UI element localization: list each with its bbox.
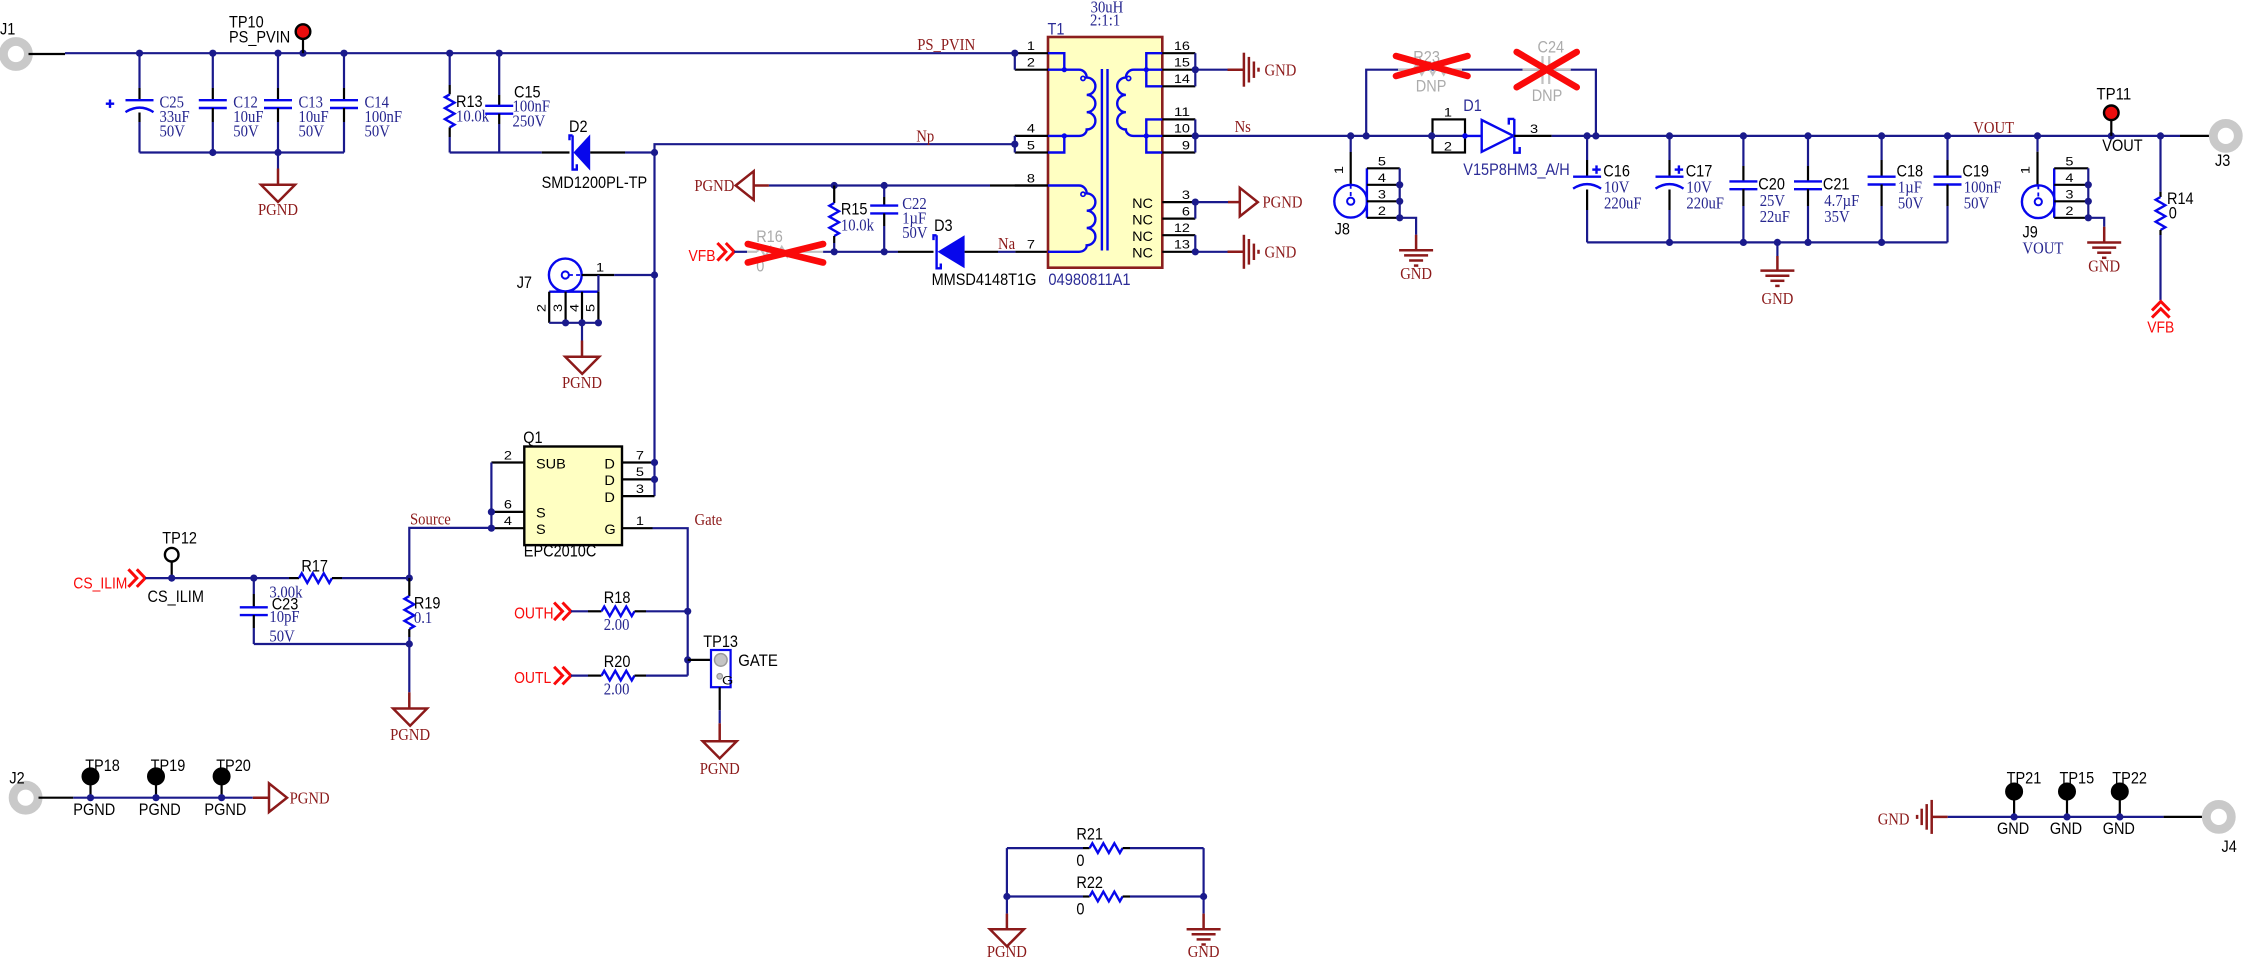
T1 primary-bottom internal connection (pins 4,5) xyxy=(1048,136,1064,153)
resistor R20 xyxy=(571,674,588,676)
svg-text:R21: R21 xyxy=(1076,825,1103,844)
svg-text:3: 3 xyxy=(553,304,565,312)
wire: J7 pin 1 to trunk xyxy=(582,274,615,276)
X mark over R23 (DNP) xyxy=(1396,56,1468,76)
capacitor C24 (DNP, crossed out) xyxy=(1523,69,1543,71)
svg-text:7: 7 xyxy=(636,450,644,462)
T1 pin 14 xyxy=(1162,85,1195,87)
svg-text:5: 5 xyxy=(586,304,598,312)
wire: Gate net from Q1 to gate trunk xyxy=(653,528,688,675)
testpoint TP10 xyxy=(296,24,311,39)
svg-text:10: 10 xyxy=(1174,124,1190,136)
diode D3 MMSD4148T1G xyxy=(898,251,934,253)
T1 pin 8 xyxy=(1015,184,1048,186)
svg-text:0: 0 xyxy=(2169,203,2177,222)
Q1 pin 7 (D) xyxy=(622,461,655,463)
svg-text:S: S xyxy=(536,521,546,537)
svg-text:1: 1 xyxy=(636,516,644,528)
svg-text:GND: GND xyxy=(1188,942,1220,960)
svg-text:G: G xyxy=(722,676,733,688)
resistor R16 (DNP, crossed out) xyxy=(747,251,757,253)
svg-text:VFB: VFB xyxy=(2147,320,2174,337)
testpoint TP19 xyxy=(148,769,164,785)
svg-text:GND: GND xyxy=(1878,810,1910,829)
svg-text:NC: NC xyxy=(1132,245,1153,261)
wire: C23 bottom rail to R19 xyxy=(254,643,409,645)
svg-text:GND: GND xyxy=(2103,819,2135,838)
svg-text:35V: 35V xyxy=(1824,207,1850,226)
svg-text:3: 3 xyxy=(2065,190,2073,202)
node: branch junctions xyxy=(1003,893,1010,900)
svg-text:GND: GND xyxy=(1997,819,2029,838)
svg-text:J2: J2 xyxy=(9,769,24,788)
svg-text:50V: 50V xyxy=(1964,194,1990,213)
capacitor C17 xyxy=(1668,136,1670,160)
node: J7 pin1 junction on trunk xyxy=(651,271,658,278)
svg-text:2: 2 xyxy=(1027,58,1035,70)
svg-text:VOUT: VOUT xyxy=(2102,136,2142,155)
svg-text:2: 2 xyxy=(1444,142,1452,154)
testpoint TP15 xyxy=(2059,784,2075,800)
capacitor C20 xyxy=(1742,136,1744,166)
svg-text:R17: R17 xyxy=(301,556,328,575)
ground GND below output caps xyxy=(1776,242,1778,256)
svg-text:J1: J1 xyxy=(0,20,15,39)
diode D1 pin box (pins 1,2) xyxy=(1433,119,1466,152)
svg-text:1: 1 xyxy=(596,263,604,275)
node: output rail junctions xyxy=(1584,132,1591,139)
svg-text:50V: 50V xyxy=(160,122,186,141)
port PGND at T1 pin 3 xyxy=(1195,201,1228,203)
connector J9 (SMA) pin 1 drop xyxy=(2036,136,2038,152)
testpoint TP13 (GATE) xyxy=(688,659,711,661)
connector J1 xyxy=(3,42,28,67)
capacitor C23 xyxy=(253,578,255,594)
svg-text:4: 4 xyxy=(2065,173,2074,185)
node: junctions on pin 8 rail xyxy=(831,182,838,189)
svg-text:D: D xyxy=(604,455,615,471)
svg-text:Np: Np xyxy=(916,127,934,146)
testpoint TP22 xyxy=(2112,784,2128,800)
svg-text:0.1: 0.1 xyxy=(414,608,432,627)
ground GND below J9 xyxy=(2088,218,2104,227)
ground PGND below TP13 xyxy=(719,687,721,710)
Q1 pin 6 (S) xyxy=(491,511,524,513)
T1 secondary internal staple (pins 16,15,14) xyxy=(1146,53,1162,86)
ground GND at T1 pin 15 xyxy=(1195,69,1227,71)
node: C23 junction xyxy=(250,575,257,582)
svg-text:220uF: 220uF xyxy=(1604,194,1642,213)
wire: staple joining T1 pins 11/10/9 xyxy=(1194,119,1196,152)
svg-text:J3: J3 xyxy=(2215,151,2230,170)
connector J9 pin box (pins 5-2) xyxy=(2053,168,2055,218)
svg-text:PGND: PGND xyxy=(562,373,602,392)
svg-text:220uF: 220uF xyxy=(1686,194,1724,213)
svg-text:6: 6 xyxy=(504,500,512,512)
svg-text:8: 8 xyxy=(1027,173,1035,185)
T1 pin 16 xyxy=(1162,52,1195,54)
wire: through D1 pin box xyxy=(1432,135,1465,137)
wire: staple joining Q1 pins 2/6/4 xyxy=(490,463,492,529)
testpoint TP12 xyxy=(165,548,179,562)
transformer T1 body xyxy=(1048,37,1162,268)
svg-text:Ns: Ns xyxy=(1235,117,1251,136)
svg-text:TP15: TP15 xyxy=(2060,769,2095,788)
svg-text:TP22: TP22 xyxy=(2112,769,2147,788)
resistor R17 xyxy=(299,573,332,583)
T1 pin 4 xyxy=(1015,135,1048,137)
testpoint TP21 xyxy=(2006,784,2022,800)
svg-text:PGND: PGND xyxy=(258,200,298,219)
capacitor C16 xyxy=(1586,136,1588,160)
wire: R13/C15 bottom rail to D2 xyxy=(450,151,542,153)
svg-text:R16: R16 xyxy=(756,227,783,246)
Q1 pin 5 (D) xyxy=(622,478,655,480)
capacitor C13 xyxy=(277,53,279,88)
svg-text:TP19: TP19 xyxy=(151,756,186,775)
svg-text:PS_PVIN: PS_PVIN xyxy=(229,27,290,46)
svg-text:NC: NC xyxy=(1132,195,1153,211)
svg-text:PGND: PGND xyxy=(139,800,181,819)
svg-text:TP12: TP12 xyxy=(162,528,197,547)
T1 secondary internal staple (pins 11,10,9) xyxy=(1146,119,1162,152)
svg-text:5: 5 xyxy=(636,467,644,479)
wire: staple joining T1 pins 4-5, Np connection xyxy=(1014,136,1016,153)
svg-text:TP20: TP20 xyxy=(216,756,251,775)
wire: R21/R22 right branch xyxy=(1202,848,1204,896)
wire: staple joining T1 pins 12/13 xyxy=(1194,235,1196,252)
svg-text:PGND: PGND xyxy=(390,725,430,744)
ground GND below J8 xyxy=(1400,218,1416,235)
T1 pin 3 (NC) xyxy=(1162,201,1195,203)
diode D2 SMD1200PL-TP xyxy=(542,151,570,153)
svg-text:NC: NC xyxy=(1132,211,1153,227)
svg-text:OUTL: OUTL xyxy=(514,670,551,687)
ground GND below right branch xyxy=(1202,897,1204,914)
svg-text:14: 14 xyxy=(1174,74,1191,86)
connector J7 (SMA) xyxy=(549,259,582,292)
svg-text:R22: R22 xyxy=(1076,873,1103,892)
svg-text:D: D xyxy=(604,489,615,505)
svg-text:1: 1 xyxy=(1444,108,1452,120)
wire: DNP bypass branch R23/C24 xyxy=(1366,70,1596,136)
testpoint TP18 xyxy=(83,769,99,785)
wire: CS_ILIM net to R17 xyxy=(145,577,289,579)
svg-text:VOUT: VOUT xyxy=(2023,238,2064,257)
svg-text:PGND: PGND xyxy=(700,759,740,778)
svg-text:Gate: Gate xyxy=(695,510,723,529)
svg-text:4: 4 xyxy=(1027,124,1036,136)
node: bottom rail junctions xyxy=(209,149,216,156)
svg-text:2: 2 xyxy=(537,304,549,312)
wire: vertical trunk from D2 down to Q1 drain xyxy=(653,153,655,497)
svg-text:J8: J8 xyxy=(1335,219,1350,238)
svg-text:GND: GND xyxy=(1265,60,1297,79)
resistor R14 xyxy=(2159,136,2161,192)
wire: input cap bottom rail xyxy=(140,151,345,153)
Q1 pin 4 (S) xyxy=(491,527,524,529)
T1 pin 13 (NC) xyxy=(1162,251,1195,253)
wire: staple joining T1 pins 1-2 xyxy=(1014,53,1016,69)
resistor R19 xyxy=(408,578,410,596)
svg-text:4: 4 xyxy=(569,303,581,312)
X mark over R16 (DNP) xyxy=(748,244,823,263)
svg-text:5: 5 xyxy=(1027,140,1035,152)
svg-text:10.0k: 10.0k xyxy=(841,216,875,235)
svg-text:2: 2 xyxy=(504,450,512,462)
svg-text:GND: GND xyxy=(1762,289,1794,308)
svg-text:VFB: VFB xyxy=(689,248,716,265)
svg-text:D: D xyxy=(604,472,615,488)
port PGND (right-pointing) xyxy=(253,796,269,799)
svg-text:PGND: PGND xyxy=(204,800,246,819)
svg-text:TP21: TP21 xyxy=(2007,769,2042,788)
wire: net Na, D3 to T1 pin 7 xyxy=(965,251,998,253)
ground PGND below left branch xyxy=(1006,897,1008,914)
T1 pin 9 xyxy=(1162,151,1195,153)
capacitor C25 xyxy=(138,53,140,88)
svg-text:S: S xyxy=(536,505,546,521)
capacitor C21 xyxy=(1807,136,1809,166)
diode D1 V15P8HM3_A/H xyxy=(1462,133,1468,139)
resistor R22 xyxy=(1007,895,1083,897)
svg-text:PGND: PGND xyxy=(290,789,330,808)
Q1 pin 3 (D) xyxy=(622,495,655,497)
svg-text:GND: GND xyxy=(1400,264,1432,283)
svg-text:V15P8HM3_A/H: V15P8HM3_A/H xyxy=(1463,160,1569,179)
T1 pin 10 xyxy=(1162,135,1195,137)
port VFB (output feedback, pointing up) xyxy=(2152,302,2170,318)
svg-text:TP18: TP18 xyxy=(85,756,120,775)
svg-text:Na: Na xyxy=(998,234,1015,253)
svg-text:50V: 50V xyxy=(269,627,295,646)
resistor R23 (DNP, crossed out) xyxy=(1398,69,1414,71)
connector J3 xyxy=(2180,135,2209,137)
svg-text:R18: R18 xyxy=(604,588,631,607)
svg-text:TP13: TP13 xyxy=(703,632,738,651)
svg-text:10.0k: 10.0k xyxy=(456,107,490,126)
wire: top input rail PS_PVIN xyxy=(65,52,1015,54)
svg-text:D3: D3 xyxy=(934,216,953,235)
svg-text:10pF: 10pF xyxy=(269,607,299,626)
T1 pin 1 xyxy=(1015,52,1048,54)
svg-text:DNP: DNP xyxy=(1416,77,1447,96)
wire: R21/R22 left branch xyxy=(1006,848,1008,896)
Q1 pin 1 (G) xyxy=(622,527,653,529)
svg-text:2:1:1: 2:1:1 xyxy=(1090,11,1120,30)
connector J8 (SMA) pin 1 drop xyxy=(1350,136,1352,152)
X mark over C24 (DNP) xyxy=(1517,52,1577,87)
transistor Q1 EPC2010C body xyxy=(524,447,622,546)
wire: output cap bottom rail xyxy=(1587,241,1947,243)
svg-text:1: 1 xyxy=(1334,166,1346,174)
ground PGND below R19 xyxy=(408,644,410,692)
svg-text:GATE: GATE xyxy=(738,651,778,670)
svg-text:R20: R20 xyxy=(604,652,631,671)
wire: pin 8 net rail xyxy=(769,184,990,186)
node: R19 bottom junction xyxy=(406,640,413,647)
svg-text:VOUT: VOUT xyxy=(1973,118,2014,137)
svg-text:50V: 50V xyxy=(1898,194,1924,213)
svg-text:2.00: 2.00 xyxy=(604,615,630,634)
svg-text:GND: GND xyxy=(2050,819,2082,838)
svg-text:PGND: PGND xyxy=(73,800,115,819)
testpoint TP11 xyxy=(2104,106,2119,121)
wire: net Np from T1 pins 4/5 xyxy=(655,144,1015,152)
svg-text:6: 6 xyxy=(1182,206,1190,218)
node: drain junctions on trunk xyxy=(651,459,658,466)
T1 pin 12 (NC) xyxy=(1162,234,1195,236)
svg-text:SMD1200PL-TP: SMD1200PL-TP xyxy=(542,173,648,192)
wire: D1 cathode pin 3 xyxy=(1514,135,1551,137)
svg-text:5: 5 xyxy=(1378,157,1386,169)
svg-text:OUTH: OUTH xyxy=(514,606,553,623)
T1 primary winding internal connection (pins 1,2) xyxy=(1048,53,1064,69)
svg-text:4: 4 xyxy=(1378,173,1387,185)
svg-text:GND: GND xyxy=(1265,243,1297,262)
node: bottom rail junctions xyxy=(1666,239,1673,246)
node: D2 output junction xyxy=(651,149,658,156)
svg-text:PGND: PGND xyxy=(987,942,1027,960)
wire: J2 ground rail xyxy=(39,797,74,799)
svg-text:1: 1 xyxy=(2021,166,2033,174)
node: J7 ground pin junctions xyxy=(562,319,569,326)
connector J7 pin box (pins 2-5) xyxy=(549,291,598,293)
svg-text:Q1: Q1 xyxy=(523,428,542,447)
svg-text:9: 9 xyxy=(1182,140,1190,152)
svg-text:J4: J4 xyxy=(2222,837,2237,856)
svg-text:G: G xyxy=(604,521,615,537)
wire: net Ns rail from T1 pin 10 to output xyxy=(1195,135,1431,137)
svg-text:1: 1 xyxy=(1027,41,1035,53)
svg-text:13: 13 xyxy=(1174,240,1190,252)
T1 core bars xyxy=(1101,69,1103,251)
ground PGND below J7 xyxy=(581,323,583,341)
resistor R15 xyxy=(833,186,835,204)
node: J9 ground pins xyxy=(2085,181,2092,188)
svg-text:Source: Source xyxy=(410,509,451,528)
svg-text:50V: 50V xyxy=(365,122,391,141)
node: junction dots on top rail xyxy=(136,50,143,57)
connector J9 (SMA) xyxy=(2022,185,2055,218)
node: R19 top junction xyxy=(406,575,413,582)
capacitor C14 xyxy=(343,53,345,88)
svg-text:MMSD4148T1G: MMSD4148T1G xyxy=(932,270,1037,289)
wire: VFB net to R16 xyxy=(734,251,747,253)
svg-text:5: 5 xyxy=(2065,157,2073,169)
svg-text:0: 0 xyxy=(1076,851,1084,870)
svg-text:EPC2010C: EPC2010C xyxy=(524,542,597,561)
svg-text:T1: T1 xyxy=(1048,19,1065,38)
svg-text:3: 3 xyxy=(636,484,644,496)
svg-text:TP11: TP11 xyxy=(2097,84,2132,103)
testpoint TP20 xyxy=(214,769,230,785)
svg-text:2.00: 2.00 xyxy=(604,680,630,699)
wire: staple joining T1 pins 16/15/14 xyxy=(1194,53,1196,86)
T1 pin 6 (NC) xyxy=(1162,218,1195,220)
ground PGND below input caps xyxy=(277,153,279,169)
svg-text:7: 7 xyxy=(1027,240,1035,252)
T1 pin 11 xyxy=(1162,118,1195,120)
node: R15/C22 bottom junctions xyxy=(831,248,838,255)
resistor R18 xyxy=(571,610,588,612)
capacitor C12 xyxy=(212,53,214,88)
svg-text:12: 12 xyxy=(1174,223,1190,235)
capacitor C22 xyxy=(883,186,885,198)
node: Ns rail junctions xyxy=(1347,132,1354,139)
svg-text:16: 16 xyxy=(1174,41,1190,53)
wire: J1 to top rail xyxy=(29,53,66,55)
svg-text:2: 2 xyxy=(1378,206,1386,218)
svg-text:CS_ILIM: CS_ILIM xyxy=(73,576,127,593)
wire: bottom right ground rail xyxy=(1948,816,2164,818)
svg-text:CS_ILIM: CS_ILIM xyxy=(148,587,204,606)
T1 pin 15 xyxy=(1162,69,1195,71)
wire: Source net from R19 node to Q1 xyxy=(409,528,491,578)
node: J8 ground pins xyxy=(1396,181,1403,188)
svg-text:D1: D1 xyxy=(1463,96,1482,115)
svg-text:PGND: PGND xyxy=(694,176,734,195)
svg-text:3: 3 xyxy=(1530,124,1538,136)
svg-text:250V: 250V xyxy=(513,112,546,131)
resistor R13 xyxy=(449,53,451,85)
svg-text:2: 2 xyxy=(2065,206,2073,218)
svg-text:0: 0 xyxy=(1076,900,1084,919)
T1 secondary winding xyxy=(1117,70,1146,136)
svg-text:PS_PVIN: PS_PVIN xyxy=(917,35,975,54)
svg-text:D2: D2 xyxy=(569,117,588,136)
T1 pin 2 xyxy=(1015,69,1048,71)
svg-text:4: 4 xyxy=(504,516,513,528)
svg-text:PGND: PGND xyxy=(1263,193,1303,212)
Q1 pin 2 (SUB) xyxy=(491,461,524,463)
capacitor C15 xyxy=(498,53,500,95)
connector J2 xyxy=(13,785,38,810)
svg-text:04980811A1: 04980811A1 xyxy=(1048,270,1130,289)
svg-text:50V: 50V xyxy=(233,122,259,141)
T1 aux winding (pins 8,7) xyxy=(1048,186,1095,252)
connector J8 pin box (pins 5-2) xyxy=(1366,168,1368,218)
svg-text:11: 11 xyxy=(1174,107,1190,119)
wire: staple joining T1 pins 3/6 xyxy=(1194,202,1196,219)
wire: R16 to D3 xyxy=(823,251,898,253)
svg-text:DNP: DNP xyxy=(1532,86,1563,105)
capacitor C18 xyxy=(1880,136,1882,160)
svg-text:J7: J7 xyxy=(517,273,532,292)
svg-text:NC: NC xyxy=(1132,228,1153,244)
svg-text:3: 3 xyxy=(1378,190,1386,202)
ground GND at T1 pin 13 xyxy=(1195,251,1227,253)
resistor R21 xyxy=(1007,847,1083,849)
svg-text:15: 15 xyxy=(1174,58,1190,70)
svg-text:C24: C24 xyxy=(1538,38,1565,57)
svg-text:22uF: 22uF xyxy=(1760,207,1790,226)
svg-text:50V: 50V xyxy=(902,223,928,242)
connector J4 xyxy=(2164,816,2202,818)
node: gate trunk junctions xyxy=(684,608,691,615)
connector J8 (SMA) xyxy=(1334,185,1367,218)
svg-text:SUB: SUB xyxy=(536,455,566,471)
T1 primary winding xyxy=(1064,70,1095,136)
T1 pin 5 xyxy=(1015,151,1048,153)
svg-text:50V: 50V xyxy=(299,122,325,141)
capacitor C19 xyxy=(1946,136,1948,160)
svg-text:GND: GND xyxy=(2088,257,2120,276)
svg-text:3: 3 xyxy=(1182,190,1190,202)
